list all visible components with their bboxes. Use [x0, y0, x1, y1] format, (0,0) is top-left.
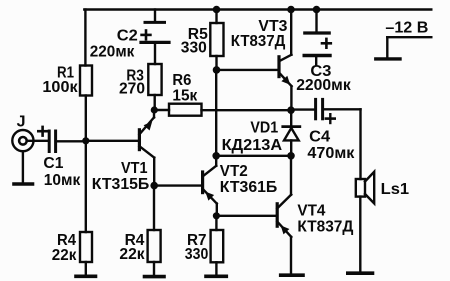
svg-text:220мк: 220мк [90, 43, 135, 60]
wire R4 right bottom to ground [153, 262, 155, 275]
wire C3 bottom stub [315, 56, 317, 65]
node VD1 anode (junction dot) [287, 152, 295, 160]
power terminal -12V lead [387, 36, 431, 38]
wire R4 bottom to ground [85, 262, 87, 275]
arrow VT1 emitter (pointing up-right, away from bar) [144, 121, 153, 130]
wire node to R6 [154, 109, 169, 111]
wire C2 to R3 [154, 42, 156, 64]
wire node down to VD1 lower node [215, 70, 217, 156]
resistor R4 (left) [80, 232, 92, 262]
wire R1 bottom to input node [85, 96, 87, 142]
wire top supply rail [84, 8, 431, 10]
plus sign C3 [322, 42, 331, 45]
wire VT4 collector to VD1 anode node [290, 156, 292, 195]
svg-text:VD1: VD1 [250, 120, 278, 137]
wire VT3 emitter to output node [290, 86, 292, 110]
svg-text:330: 330 [185, 246, 209, 263]
capacitor C3 [305, 31, 329, 34]
plus sign C1 [38, 130, 47, 133]
wire speaker to ground [359, 197, 361, 272]
svg-text:VT1: VT1 [121, 160, 148, 177]
capacitor C1 [48, 131, 51, 152]
plus sign C2 [142, 34, 151, 37]
ground (under speaker) [348, 271, 373, 275]
wire J to C1 [27, 140, 48, 142]
wire C1 to input node [57, 140, 86, 142]
wire VT1 lower lead to node [153, 158, 155, 186]
transistor VT2 [201, 172, 204, 193]
wire C4 to speaker [324, 108, 360, 110]
node R3/R6/VT1 (junction dot) [151, 106, 158, 113]
power terminal bar [376, 57, 400, 60]
ground (under R7) [206, 274, 226, 278]
resistor R5 [210, 23, 223, 56]
wire node to VT3 base [217, 69, 278, 71]
wire R6 right to output node (crosses vertical line, no dot) [202, 109, 292, 111]
ground (under R4 right) [145, 275, 165, 279]
node VT2/R7/VT4 (junction dot) [213, 212, 220, 219]
wire VT4 emitter to ground [290, 237, 292, 273]
svg-text:22к: 22к [119, 246, 145, 263]
wire R3 to node [153, 95, 155, 110]
wire from rail down to R1 [84, 10, 86, 66]
wire VT1 upper lead to node R3/R6 [153, 110, 155, 117]
svg-text:22к: 22к [52, 247, 77, 264]
resistor R3 [148, 64, 161, 95]
svg-text:C2: C2 [117, 27, 138, 44]
wire rail to C3 [315, 10, 317, 33]
transistor VT4 [276, 204, 279, 226]
wire output node to C4 [291, 108, 314, 110]
svg-text:C4: C4 [309, 129, 330, 146]
resistor R7 [211, 230, 224, 262]
node rail/R5 (junction dot) [213, 6, 221, 14]
arrow VT3 emitter (pointing down-right, away from bar) [281, 76, 290, 85]
capacitor C2 stem from rail [154, 10, 156, 23]
wire node down to R4 right [153, 186, 155, 230]
node VT1/VT2/R4 (junction dot) [150, 182, 158, 190]
node input (junction dot) [82, 137, 89, 144]
wire input node down to R4 [85, 141, 87, 232]
svg-text:КТ361Б: КТ361Б [220, 179, 277, 196]
svg-text:Ls1: Ls1 [381, 181, 410, 198]
plus sign C4 [326, 117, 335, 120]
wire input node to VT1 base [86, 140, 138, 142]
node rail/VT3 (junction dot) [287, 6, 295, 14]
node rail/C3 (junction dot) [313, 6, 321, 14]
node output VD1/C4/R6 (junction dot) [287, 106, 295, 114]
wire VT1 collector node to VT2 base [154, 184, 202, 186]
svg-text:100к: 100к [42, 79, 78, 96]
arrow VT4 emitter (pointing up-left, into bar) [281, 225, 290, 234]
svg-text:15к: 15к [172, 87, 198, 104]
svg-text:C1: C1 [43, 155, 63, 172]
speaker Ls1 [356, 179, 365, 197]
wire node to VD1 anode node [216, 155, 291, 157]
capacitor C2 [145, 21, 165, 24]
svg-text:КТ315Б: КТ315Б [92, 176, 150, 193]
svg-text:270: 270 [119, 80, 145, 97]
resistor R6 [169, 104, 202, 116]
svg-text:VT4: VT4 [297, 202, 325, 219]
diode VD1 [290, 110, 292, 125]
svg-text:–12 В: –12 В [385, 20, 428, 37]
node R5/VT3 base (junction dot) [213, 66, 221, 74]
capacitor C4 [314, 99, 317, 118]
svg-text:10мк: 10мк [44, 172, 81, 189]
wire VT3 collector to rail [290, 10, 292, 55]
transistor VT1 [138, 130, 141, 150]
wire R7 bottom to ground [215, 262, 217, 274]
svg-text:470мк: 470мк [307, 145, 355, 162]
svg-text:КТ837Д: КТ837Д [297, 219, 354, 236]
svg-text:330: 330 [181, 39, 207, 56]
resistor R1 [80, 66, 92, 96]
resistor R4 (right) [148, 230, 161, 262]
wire R5 bottom to node [215, 56, 217, 70]
arrow VT2 emitter (pointing up-left, into bar) [205, 192, 214, 201]
wire J shell down [22, 151, 24, 182]
wire node to VT4 base [216, 215, 275, 217]
transistor VT3 [277, 57, 280, 77]
wire rail to R5 [215, 10, 217, 24]
wire VT2 emitter to node [216, 204, 218, 216]
ground (under R4 left) [76, 274, 96, 278]
svg-text:КТ837Д: КТ837Д [231, 33, 286, 50]
svg-text:VT2: VT2 [220, 163, 248, 180]
svg-text:КД213А: КД213А [222, 137, 283, 154]
ground (under J) [14, 182, 33, 186]
svg-text:J: J [17, 113, 26, 130]
ground (under VT4) [281, 273, 303, 277]
connector J circle [12, 130, 33, 151]
node VD1 bottom / VT2 collector (junction dot) [212, 152, 220, 160]
svg-text:2200мк: 2200мк [296, 77, 351, 94]
wire node down to R7 [215, 216, 217, 230]
